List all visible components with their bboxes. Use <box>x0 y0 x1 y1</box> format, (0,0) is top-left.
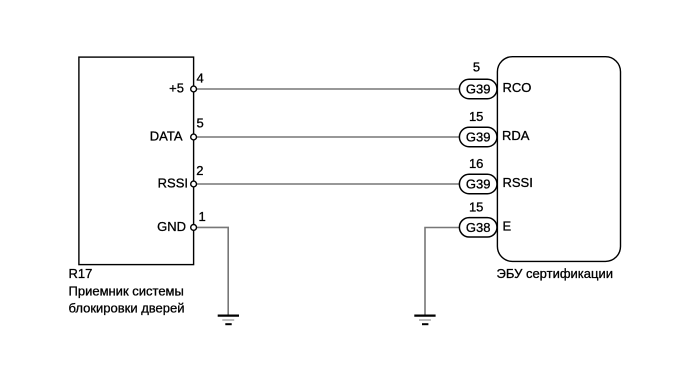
ground symbol right <box>414 316 435 325</box>
pin circle 5 (DATA) <box>191 134 197 140</box>
svg-text:RCO: RCO <box>503 80 532 95</box>
svg-text:R17: R17 <box>69 266 93 281</box>
connector oval G39 pin 16 <box>459 174 497 193</box>
svg-text:G39: G39 <box>466 177 491 192</box>
svg-text:5: 5 <box>197 115 204 130</box>
pin circle 4 (+5) <box>191 86 197 92</box>
connector oval G39 pin 15 <box>459 127 497 146</box>
svg-text:GND: GND <box>157 219 186 234</box>
svg-text:RSSI: RSSI <box>158 176 188 191</box>
svg-text:+5: +5 <box>169 81 184 96</box>
svg-text:1: 1 <box>199 209 206 224</box>
svg-text:G39: G39 <box>466 82 491 97</box>
svg-text:2: 2 <box>196 163 203 178</box>
wire +5 to G39 pin 5 <box>196 88 460 90</box>
svg-text:16: 16 <box>469 156 483 171</box>
svg-text:15: 15 <box>469 109 483 124</box>
svg-text:ЭБУ сертификации: ЭБУ сертификации <box>497 266 613 281</box>
svg-text:5: 5 <box>473 60 480 75</box>
ground symbol left <box>218 316 239 325</box>
svg-text:15: 15 <box>469 200 483 215</box>
ECU box (ЭБУ сертификации) <box>497 57 620 262</box>
connector oval G39 pin 5 <box>459 79 497 98</box>
component box R17 receiver <box>79 57 194 265</box>
wire E to ground <box>425 228 460 316</box>
svg-text:G38: G38 <box>466 220 491 235</box>
svg-text:Приемник системы: Приемник системы <box>69 283 184 298</box>
wire GND to ground <box>196 227 228 315</box>
connector oval G38 pin 15 <box>459 218 497 237</box>
svg-text:DATA: DATA <box>150 129 183 144</box>
svg-text:блокировки дверей: блокировки дверей <box>69 300 185 315</box>
pin circle 2 (RSSI) <box>191 181 197 187</box>
pin circle 1 (GND) <box>191 225 197 231</box>
svg-text:RDA: RDA <box>502 128 530 143</box>
wire RSSI to G39 pin 16 <box>196 183 460 185</box>
svg-text:RSSI: RSSI <box>503 175 533 190</box>
wire DATA to G39 pin 15 <box>196 136 460 138</box>
svg-text:G39: G39 <box>466 130 491 145</box>
svg-text:E: E <box>503 218 512 233</box>
svg-text:4: 4 <box>197 70 204 85</box>
